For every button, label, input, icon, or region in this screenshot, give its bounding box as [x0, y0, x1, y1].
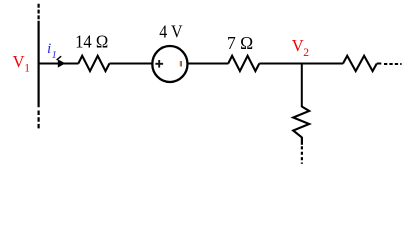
wire R2 through node V2 to R3: [259, 63, 343, 65]
svg-text:2: 2: [303, 47, 309, 59]
wire R1 to source: [109, 63, 152, 65]
svg-text:V: V: [13, 52, 25, 71]
node V1 label: [13, 52, 31, 75]
wire node V2 down to R4: [301, 64, 303, 108]
dashed continuation right: [384, 63, 402, 65]
svg-text:V: V: [292, 36, 304, 55]
wire stub right of R3: [377, 63, 382, 65]
svg-text:4 V: 4 V: [159, 22, 182, 42]
svg-text:1: 1: [52, 49, 57, 61]
wire stub below R4: [301, 137, 303, 145]
svg-text:7 Ω: 7 Ω: [227, 33, 253, 53]
resistor R3 (right, to dashed continuation): [343, 56, 377, 71]
wire from V1 bus to R1: [39, 63, 79, 65]
resistor R2 7 ohm: [228, 56, 259, 71]
boundary bus (left dashed/solid vertical line): [37, 4, 39, 130]
dashed continuation down: [301, 146, 303, 163]
voltage source VS 4V: [152, 46, 187, 82]
node V2 label: [292, 36, 309, 59]
current arrow i1: [57, 56, 66, 67]
wire source to R2: [188, 63, 228, 65]
resistor R4 (vertical): [293, 107, 309, 138]
current label i1: [47, 40, 57, 61]
resistor R1 14 ohm: [78, 56, 109, 71]
svg-text:14 Ω: 14 Ω: [75, 32, 108, 52]
svg-text:1: 1: [24, 63, 30, 75]
